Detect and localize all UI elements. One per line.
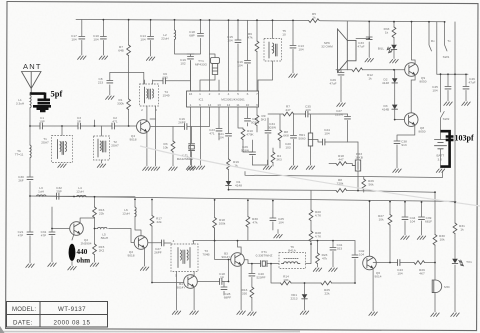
wire top rail (76, 20, 445, 22)
resistor R14 10K (271, 264, 305, 285)
wire IC pin14 bottom column (218, 107, 220, 128)
capacitor C31 47P on Q2 base (41, 207, 70, 266)
resistor R28b 4.7K lower (309, 231, 322, 244)
crystal XT1 0.336TWHZ (244, 250, 279, 267)
capacitor C3 (62, 116, 95, 129)
resistor R1 330k (117, 98, 130, 110)
transistor Q6 9014 audio amp (363, 201, 382, 315)
wire left column (29, 158, 31, 263)
capacitor C41 103 (329, 241, 343, 272)
resistor R30b 10k on mic column (433, 192, 445, 262)
wire bias line extension to C41/C42 (238, 240, 356, 242)
capacitor C21b 104 / resistor R19 / diode D1 column (218, 107, 231, 190)
capacitor C27 26PF (148, 240, 171, 255)
transistor Q4 (1st mixer) (130, 120, 151, 142)
LED TX1 (451, 259, 472, 317)
inductor L4 1.2uH (74, 186, 135, 197)
speaker SPK 32 OHM (321, 21, 356, 72)
capacitor C33 47uF (356, 22, 373, 62)
bold 103pf annotation across battery (441, 131, 450, 166)
ceramic filter HR1 5060 (299, 115, 315, 170)
antenna symbol (22, 72, 42, 94)
switch SW2 on battery line (441, 74, 450, 139)
capacitor C25 104 from bus (270, 201, 284, 230)
inductor L5 .56uH (98, 227, 135, 242)
resistor R31 1k (453, 223, 465, 234)
crystal X-TL1 MA42SMHz (177, 127, 196, 171)
op-amp IC1 MC3361/KA3361 body (187, 91, 259, 107)
capacitor C38 913 on Q8 emitter (393, 125, 415, 173)
capacitor C15 on pin6 column (227, 20, 241, 91)
IF transformer T2 (dashed can) (94, 126, 120, 167)
transistor Q8 8050 (404, 113, 425, 134)
wire Q5 collector up to bias line (238, 241, 242, 255)
resistor R16b 330 (242, 287, 256, 315)
varactor diode VD1 (291, 283, 309, 314)
wire Q4 emitter to ground (143, 132, 151, 171)
resistor R16 22k (93, 197, 105, 229)
capacitor C13 (289, 20, 304, 77)
resistor R10 470K column (238, 107, 255, 152)
ceramic resonator TY1 MF433G (195, 54, 220, 91)
capacitor C46 47uF (462, 74, 476, 105)
battery BATT 3.0 (435, 140, 447, 173)
resistor R23 47k (313, 241, 327, 272)
capacitor C24 104 (313, 128, 358, 145)
switch SW1 Tx side (443, 22, 455, 74)
resistor R12 1k (347, 68, 404, 81)
resistor R7b 447 on audio line (268, 105, 305, 116)
wire Q2 collector to R16 junction and L5 (80, 218, 97, 229)
capacitor C29 503W (241, 140, 268, 165)
wire Q9 collector to rail (412, 22, 416, 65)
capacitor C6 103 (153, 72, 191, 84)
inductor 440 ohm bold blob (Q2 emitter choke) (68, 234, 76, 270)
bold 5pf annotation capacitor (30, 93, 51, 112)
capacitor C11 5P (197, 272, 228, 285)
wire long Tx bus down right side (454, 74, 456, 312)
transistor Q5 9014Y (222, 252, 245, 267)
wire IC pin6 bottom to ground (196, 107, 204, 169)
transistor Q9 8050 (405, 63, 427, 84)
wire T3 pin5 down to ground (172, 272, 180, 315)
capacitor C39 681 (417, 202, 432, 239)
wire IC pin16 top column (190, 61, 192, 92)
microphone MIC (431, 263, 451, 317)
capacitor C18 (tank) (189, 30, 203, 37)
bold capacitor bars of 103pf annotation (446, 137, 454, 140)
scan smudge bottom-left corner (0, 326, 5, 333)
resistor R6 47k (248, 20, 259, 91)
capacitor C40 520PF (249, 264, 266, 287)
capacitor C16a on pin7 column (237, 20, 250, 91)
wire T3 pin1 to bias line (194, 228, 238, 244)
capacitor C42 104 (352, 241, 365, 283)
wire switch output horizontal (437, 73, 468, 75)
capacitor C23 471 on pin13 column (209, 128, 222, 140)
capacitor C32 25P (46, 186, 74, 199)
oscillator coil B41A (dashed box) (279, 244, 311, 269)
capacitor C35 103 (305, 105, 348, 118)
capacitor C28 68PF (221, 282, 231, 300)
capacitor C1 10P (30, 116, 62, 129)
capacitor C16 26PF on local osc line (151, 107, 210, 130)
resistor R28 4.7K column (309, 191, 322, 231)
transformer T5 (dashed can) (258, 20, 286, 91)
capacitor C2 471 (95, 116, 136, 129)
capacitor C8 223 with ground (98, 72, 144, 99)
resistor R30 47k from bus (246, 200, 258, 240)
capacitor C14 (140, 20, 155, 61)
resistor R8 220k (336, 178, 347, 192)
switch SW1 Rx side (429, 22, 437, 74)
capacitor C34 503W (263, 118, 276, 169)
wire Q9 emitter down to Q8 collector (411, 75, 415, 113)
capacitor C17 (71, 20, 86, 60)
capacitor C20 103 (285, 115, 298, 170)
wire IC pin3 column to rail (209, 20, 211, 91)
IF transformer T4 1549 (dashed can) (140, 80, 170, 119)
resistor R9 5K3 column pin9 (255, 107, 266, 132)
transistor Q2b mixer at 141,242.5 (128, 236, 149, 271)
resistor R18 447 (329, 154, 355, 166)
diode D2 4148 (382, 70, 397, 85)
resistor R19 1k (227, 159, 240, 170)
resistor R7 with column down to mixer (118, 20, 130, 126)
resistor R15 2K2 (90, 229, 104, 267)
resistor R8 6K8 (278, 115, 289, 149)
resistor R27 10k (378, 202, 392, 263)
coil TA 7T=11 on left column (15, 145, 31, 158)
resistor R18b 100k from bus (213, 200, 231, 260)
wire C11 up to Q5 base node (228, 260, 230, 282)
IF transformer T1 (dashed can) (41, 126, 72, 167)
wire C3/T2 junction stub (94, 120, 96, 126)
capacitor C36 503W on pin10 column (245, 107, 260, 126)
LED BILL (378, 45, 398, 63)
wire Q4 collector up to T4 (146, 106, 148, 121)
inductor L2 22uH tank (161, 20, 200, 54)
wire audio feedback line with R8 220k (229, 190, 436, 193)
wire Q5 emitter down to ground (237, 265, 245, 315)
resistor R33 1k (384, 22, 396, 45)
capacitor C43 104 mic coupling (373, 260, 414, 276)
capacitor C45 104 (432, 74, 452, 105)
wire IC pin1 bottom to ground (186, 107, 194, 169)
resistor R29 4K7 (414, 261, 435, 276)
scan artifact bottom edge (0, 331, 300, 333)
resistor R17 22k from bus (150, 200, 183, 283)
wire IC pin4 top stub (218, 80, 220, 91)
transistor Q3 9014 (177, 272, 199, 315)
resistor R4 5K3 lower (271, 148, 282, 166)
capacitor C27 223W (335, 109, 351, 142)
resistor R25 22k (305, 281, 356, 295)
capacitor C30 (18, 175, 33, 182)
ground stub near B41A (274, 230, 282, 238)
IF transformer T3 (dashed can) (171, 239, 210, 278)
capacitor C29b 47uF (329, 70, 347, 107)
capacitor C21 47P (18, 230, 35, 267)
wire left column down (29, 126, 31, 145)
capacitor C19 (180, 54, 194, 91)
scan crease artifact (140, 146, 480, 206)
wire IC pin5 column to rail (228, 20, 230, 91)
transistor Q2 2N3904 (RF amp) (70, 222, 92, 246)
capacitor C44 104 (401, 202, 416, 240)
inductor L6 12uH from bus (122, 199, 141, 235)
preset pot PR3 10KB (352, 142, 362, 191)
capacitor C10 (93, 20, 107, 60)
diode D1 4148 (226, 180, 243, 187)
resistor R26 56k (362, 177, 374, 193)
diode D3 4148 (382, 83, 404, 120)
wire lower bus (30, 196, 456, 201)
resistor R3 10k (163, 127, 177, 171)
inductor L3 1uH (37, 186, 47, 196)
resistor R5 (inline on rail) (309, 12, 320, 23)
inductor L1 3.3uH (16, 94, 31, 127)
wire T4 secondary down to ground (151, 119, 159, 170)
wire long routed net upper (245, 171, 443, 178)
title block table (7, 302, 108, 328)
